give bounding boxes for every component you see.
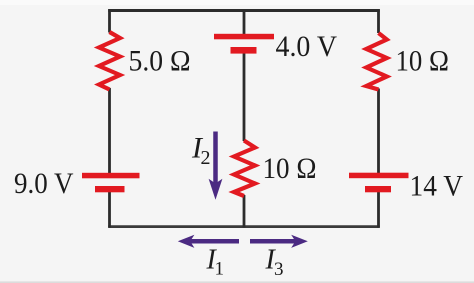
resistor 10 ohm (middle branch) — [234, 141, 255, 197]
resistor 5.0 ohm (left branch) — [99, 32, 120, 90]
resistor 10 ohm (right) value label — [396, 44, 450, 77]
wire right branch lower — [377, 192, 380, 228]
current label I2 — [191, 132, 211, 170]
wire middle branch lower — [243, 195, 246, 228]
resistor 10 ohm (right branch) — [366, 33, 387, 90]
svg-text:10 Ω: 10 Ω — [263, 152, 317, 185]
battery 4.0 V value label — [276, 30, 338, 63]
battery 4.0 V short plate — [231, 47, 257, 54]
battery 14 V (right branch) long plate — [349, 173, 409, 179]
svg-text:3: 3 — [274, 259, 284, 280]
wire top — [108, 9, 380, 12]
current label I3 — [265, 245, 284, 280]
wire right branch middle — [377, 89, 380, 174]
battery 9.0 V value label — [14, 167, 74, 200]
current arrow I3 (bottom right, pointing right) — [250, 235, 308, 248]
current arrow I1 (bottom left, pointing left) — [178, 235, 239, 248]
wire bottom — [108, 225, 380, 228]
svg-text:4.0 V: 4.0 V — [276, 30, 338, 63]
battery 4.0 V (middle branch) long plate — [214, 34, 274, 40]
svg-text:10 Ω: 10 Ω — [396, 44, 450, 77]
current label I1 — [206, 245, 225, 280]
resistor 5.0 ohm value label — [129, 44, 191, 77]
wire left branch middle — [108, 88, 111, 174]
wire left branch lower — [108, 192, 111, 228]
svg-text:1: 1 — [215, 259, 225, 280]
wire left branch upper — [108, 9, 111, 32]
current arrow I2 (middle branch, pointing down) — [209, 132, 223, 200]
svg-text:9.0 V: 9.0 V — [14, 167, 74, 200]
battery 9.0 V (left branch) long plate — [82, 173, 140, 179]
battery 9.0 V short plate — [95, 186, 125, 192]
wire middle branch middle — [243, 53, 246, 141]
svg-text:5.0 Ω: 5.0 Ω — [129, 44, 191, 77]
svg-text:2: 2 — [201, 147, 211, 169]
battery 14 V value label — [410, 169, 464, 202]
resistor 10 ohm (middle) value label — [263, 152, 317, 185]
battery 14 V short plate — [365, 186, 391, 192]
wire right branch upper — [377, 9, 380, 33]
wire middle branch upper — [243, 9, 246, 34]
svg-text:14 V: 14 V — [410, 169, 464, 202]
